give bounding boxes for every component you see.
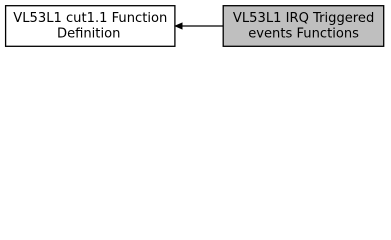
svg-text:VL53L1 cut1.1 Function: VL53L1 cut1.1 Function: [13, 11, 167, 26]
svg-text:Definition: Definition: [57, 27, 120, 42]
svg-text:events Functions: events Functions: [248, 27, 359, 42]
svg-text:VL53L1 IRQ Triggered: VL53L1 IRQ Triggered: [233, 11, 374, 26]
